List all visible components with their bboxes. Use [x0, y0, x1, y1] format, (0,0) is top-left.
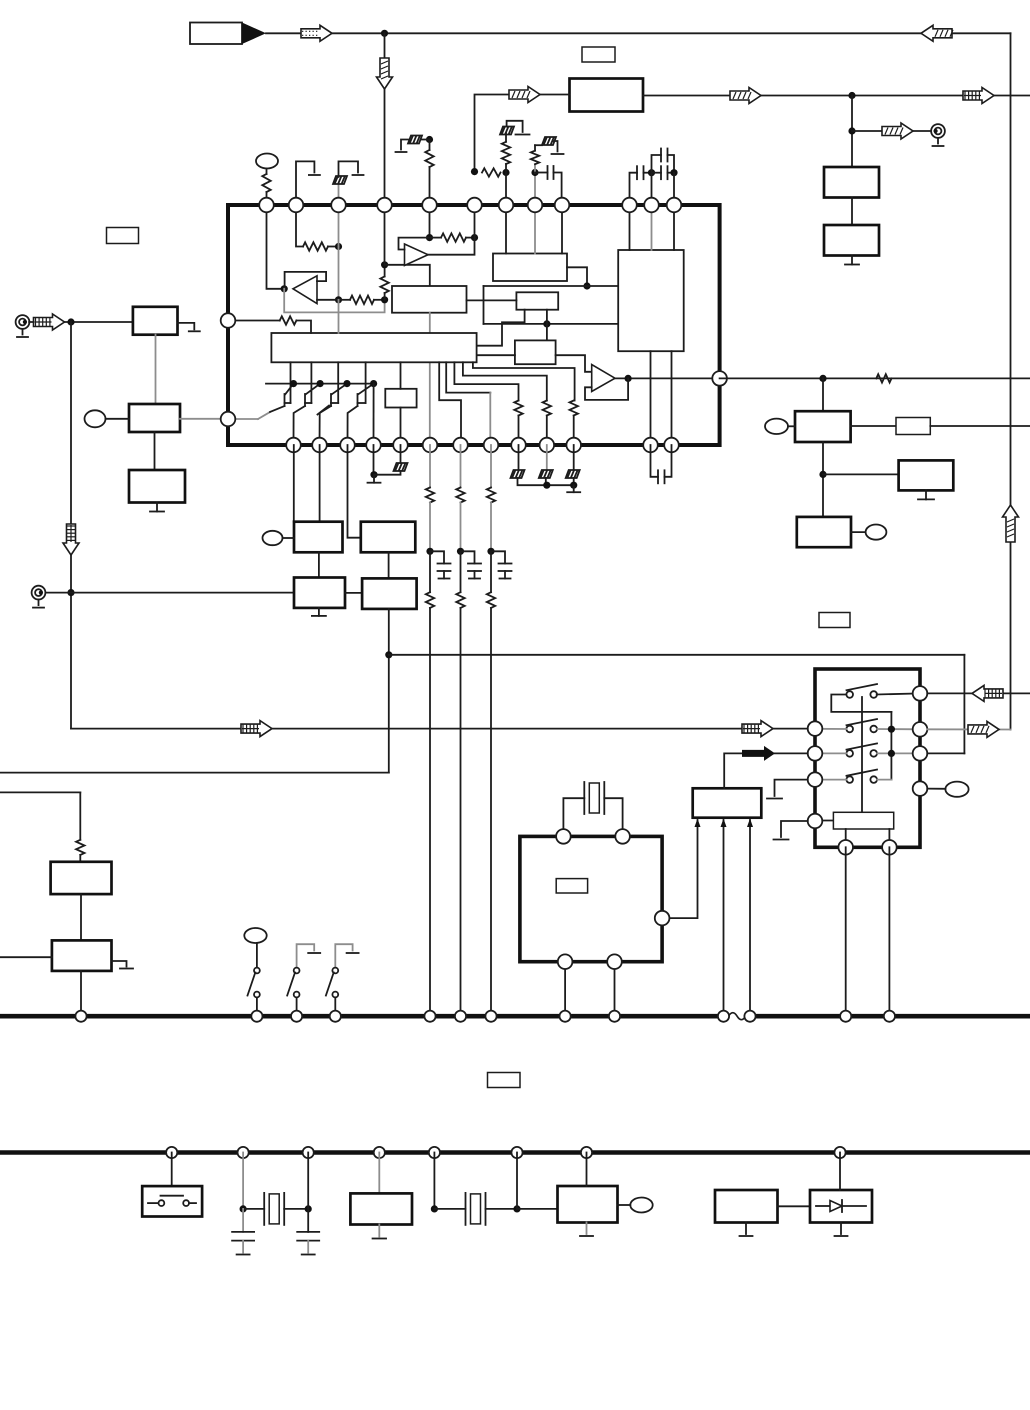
wire pin12 riser — [673, 173, 675, 205]
wire pin3 drop from pin (gray) — [338, 205, 340, 247]
resistor column b6 upper — [426, 488, 434, 503]
block H — [899, 460, 954, 490]
diode D1 — [816, 1205, 830, 1207]
wire line2 drop — [79, 792, 81, 839]
block D — [361, 522, 416, 553]
arrow solid right to block — [742, 746, 775, 761]
ground below B2 — [156, 503, 158, 512]
arrow grid right from jack1 — [34, 314, 65, 330]
wire row1 pole U — [831, 695, 891, 712]
wire op-amp B feedback hook — [399, 238, 430, 250]
pin MCU top 2 — [615, 829, 630, 844]
wire pin2 internal drop — [296, 205, 303, 247]
wire pin3 internal drop (gray) — [338, 247, 340, 300]
wire pin1 internal drop — [267, 205, 285, 289]
capacitor pin8 to pin9 — [535, 172, 548, 174]
wire jack1 to input box — [29, 321, 133, 323]
pin bottom 10 — [540, 438, 555, 453]
supply box L — [715, 1190, 778, 1223]
ellipse label above pin1 — [256, 154, 278, 169]
wire pin b7 column (gray) — [460, 445, 462, 488]
node bus1 junction 8 — [560, 1011, 571, 1022]
wire row4 left (gray) — [815, 779, 846, 781]
resistor on output line — [876, 374, 891, 382]
leaf switch contacts — [148, 1202, 158, 1204]
wire G down — [822, 442, 824, 517]
pin top 9 — [555, 198, 570, 213]
node bus2 junction 6 — [511, 1147, 522, 1158]
resistor column b8 upper — [487, 488, 495, 503]
wire pin3 riser (gray) — [338, 184, 340, 205]
wire top rail right drop — [1010, 33, 1012, 729]
node bus1 junction 5 — [424, 1011, 435, 1022]
block register long box — [271, 333, 476, 362]
pin bottom 12 — [643, 438, 658, 453]
node Q1 collector — [290, 380, 297, 387]
wire box B1 left leg to long box — [477, 310, 525, 346]
capacitor column b6 — [430, 551, 444, 563]
node bus1 junction 7 — [485, 1011, 496, 1022]
wire selector stem — [861, 697, 863, 812]
capacitor lower pin11 to pin12 — [652, 172, 662, 174]
wire long box tab to box B2 — [477, 354, 515, 356]
node row3 link — [888, 750, 895, 757]
pin bottom 5 — [393, 438, 408, 453]
pin bottom 8 — [484, 438, 499, 453]
resistor on pin4 net — [380, 277, 388, 294]
wire column b7 mid (gray) — [460, 503, 462, 552]
resistor above pin b9 — [514, 401, 522, 416]
capacitor column b8 — [491, 551, 505, 563]
wire long box to bias box — [400, 362, 402, 389]
wire bus2 to reset box (gray) — [378, 1153, 380, 1194]
wire column b7 to bus — [460, 608, 462, 1016]
pin block left 1 — [808, 721, 823, 736]
wire column b8 mid (gray) — [490, 503, 492, 552]
pin top 3 — [331, 198, 346, 213]
diode box M — [810, 1190, 872, 1223]
node bus1 junction 13 — [884, 1011, 895, 1022]
ground block left pin3 — [775, 780, 808, 796]
wire pin b1 to block F1 — [293, 445, 295, 522]
wire op-amp C output — [615, 377, 720, 379]
ground below clock box — [586, 1223, 588, 1235]
label thin box — [896, 418, 930, 435]
resistor above pin1 — [266, 169, 268, 175]
pin top 8 — [528, 198, 543, 213]
ground below box L — [745, 1223, 747, 1235]
wire pin10 into block — [629, 205, 631, 250]
arrow grid down on left riser — [63, 524, 79, 555]
switch SW3 — [335, 944, 352, 967]
arrow grid right at page edge — [963, 88, 994, 104]
ground below box M — [840, 1223, 842, 1235]
node osc right — [513, 1205, 520, 1212]
pin bottom 1 — [286, 438, 301, 453]
switch S3 row3 — [846, 750, 853, 757]
wire pin8 riser (gray) — [534, 173, 536, 206]
transistor Q1 — [290, 362, 292, 403]
capacitor pin10 to pin11 — [630, 173, 638, 205]
wire bus2 to leaf switch box — [171, 1153, 173, 1187]
node Q3 collector — [343, 380, 350, 387]
op-amp C (right-pointing) — [592, 365, 615, 392]
ground bracket right of pin8 — [553, 141, 558, 152]
capacitor upper pin11 to pin12 — [652, 155, 662, 173]
input box A1 — [133, 307, 178, 335]
wire switch riser — [963, 655, 965, 754]
switch block outline — [815, 669, 920, 847]
switch S2 row2 — [846, 726, 853, 733]
reset box — [350, 1193, 412, 1224]
wire J to K — [80, 894, 82, 940]
arrow hatched up on right drop — [1003, 505, 1019, 542]
wire crystal right — [604, 798, 622, 836]
wire bias box to pin b5 — [400, 408, 402, 446]
node column b8 — [487, 548, 494, 555]
arrow grid right tape line 2 — [742, 721, 773, 737]
pin bottom 6 — [423, 438, 438, 453]
wire crystal left — [563, 798, 584, 836]
wire Q4 emitter to pin b3 — [348, 406, 358, 445]
node pin11 cap junction — [648, 169, 655, 176]
wire bus2 to osc node — [433, 1153, 435, 1209]
wire tape line to block — [71, 728, 808, 730]
switch SW1 — [256, 943, 258, 968]
pin block right 3 — [913, 746, 928, 761]
wire driver input 1 from MCU — [662, 820, 697, 918]
wire fan drop 5 to resistor b11 — [473, 362, 575, 400]
ground bracket above pin7 — [507, 121, 523, 132]
wire box B2 to op-amp C input — [556, 355, 592, 372]
wire row2 left (gray) — [815, 728, 846, 730]
ellipse label above SW1 — [244, 928, 266, 943]
wire pin6 internal drop — [474, 205, 476, 238]
wire MCU bottom pin2 to bus — [614, 962, 616, 1017]
arrow hatched left on top rail — [921, 25, 952, 41]
wire input box down to B1 block (gray) — [155, 335, 157, 404]
wire op-amp A inverting input — [317, 299, 339, 301]
resistor column b8 lower — [490, 551, 492, 592]
arrow grid left on pin1 wire — [972, 685, 1003, 701]
pin MCU bottom 1 — [558, 954, 573, 969]
wire op-amp A output return (gray) — [284, 289, 384, 313]
resistor above pin b10 — [543, 401, 551, 416]
wire pin7 riser — [505, 164, 507, 205]
node mode line junction — [385, 651, 392, 658]
block box B1 — [516, 292, 558, 309]
node column b6 — [426, 548, 433, 555]
wire bus2 to osc right — [516, 1153, 518, 1209]
wire pin4 net to box C — [385, 265, 430, 286]
node bus1 junction 10 — [718, 1011, 729, 1022]
wire fan drop 1 to pin b7 — [439, 362, 461, 445]
wire Q1 emitter to left pin (gray) — [228, 418, 258, 420]
pin block right 1 — [913, 686, 928, 701]
wire G to thin box — [851, 425, 896, 427]
pin top 10 — [622, 198, 637, 213]
node bus2 junction 5 — [429, 1147, 440, 1158]
ground bracket left of pin5 — [401, 140, 408, 150]
resistor feedback net — [350, 296, 374, 304]
wire B1 to B2 — [154, 432, 156, 470]
pin block bottom 2 — [882, 840, 897, 855]
node column b7 — [457, 548, 464, 555]
wire pin8 into box A (gray) — [534, 205, 536, 254]
ground right of K — [112, 961, 127, 967]
wire pin4 internal drop — [384, 205, 386, 265]
wire to box G — [822, 378, 824, 411]
resistor above box J — [76, 840, 84, 855]
wire D to E — [388, 552, 390, 578]
clock box — [558, 1186, 618, 1223]
wire fan drop 2 to pin b8 (gray tail) — [446, 362, 490, 392]
wire drive to block pin2 — [724, 753, 808, 788]
node bus1 junction 9 — [609, 1011, 620, 1022]
wire fan drop 4 to resistor b10 — [463, 362, 547, 400]
resistor above pin b11 — [570, 401, 578, 416]
node pin4 net lower — [381, 296, 388, 303]
wire branch to jack — [852, 130, 932, 132]
transistor Q3 — [337, 362, 339, 403]
block R2 box — [824, 225, 879, 256]
node bus2 junction 2 — [238, 1147, 249, 1158]
pin block left 3 — [808, 772, 823, 787]
pin block right 4 — [913, 781, 928, 796]
resistor above pin7 — [502, 142, 510, 164]
node crystal2 right — [305, 1205, 312, 1212]
wire B1 to IC left pin (gray) — [180, 418, 221, 420]
node op-amp A output — [281, 285, 288, 292]
wire bus2 to crystal2 node (gray) — [242, 1153, 244, 1209]
connector jack J3 — [931, 124, 945, 138]
crystal X2 — [243, 1208, 264, 1210]
pin top 12 — [667, 198, 682, 213]
block E — [362, 578, 417, 609]
ground pair pins b4 b5 — [373, 445, 375, 475]
chassis ground right of pin8 — [534, 145, 536, 151]
block small box bias — [385, 389, 416, 408]
wire K exit left — [0, 956, 52, 958]
node mix line — [583, 282, 590, 289]
wire filter output — [643, 95, 1030, 97]
wire bus2 into diode box — [839, 1153, 841, 1191]
node output line — [819, 375, 826, 382]
wire L to diode box — [778, 1205, 811, 1207]
pin MCU bottom 2 — [607, 954, 622, 969]
wire pin b8 column (gray) — [490, 445, 492, 488]
wire pin5 internal drop — [429, 205, 431, 238]
wire row2 right (gray) — [877, 728, 920, 730]
block box A — [493, 254, 567, 282]
wire driver input 2 from bus — [723, 820, 725, 1016]
wire row4 right (gray) — [877, 779, 891, 781]
block J — [51, 862, 112, 894]
ellipse label left of G — [765, 419, 788, 434]
wire pin7 into box A — [505, 205, 507, 254]
wire line2 exit left — [0, 791, 80, 793]
pin top 6 — [467, 198, 482, 213]
block I — [797, 517, 851, 547]
leaf switch box — [142, 1186, 202, 1216]
wire bus2 into clock box — [586, 1153, 588, 1187]
node G branch — [819, 471, 826, 478]
crystal X1 — [583, 782, 585, 814]
pin MCU top 1 — [556, 829, 571, 844]
node bus2 junction 8 — [834, 1147, 845, 1158]
pin bottom 3 — [340, 438, 355, 453]
wire Q3 emitter to pin b2 — [320, 406, 332, 445]
arrow grid right tape line 1 — [241, 721, 272, 737]
label box between buses — [488, 1073, 521, 1088]
pin top 4 — [377, 198, 392, 213]
ellipse label right of clock box — [630, 1198, 652, 1213]
wire pin b3 to block D — [348, 445, 361, 538]
block box B2 — [515, 340, 556, 364]
pin left upper — [221, 313, 236, 328]
pin top 11 — [644, 198, 659, 213]
node Q4 collector — [370, 380, 377, 387]
wire between blocks — [851, 198, 853, 226]
resistor above pin5 — [429, 167, 431, 205]
ground bracket above pin2 — [296, 161, 314, 205]
pin bottom 13 — [664, 438, 679, 453]
wire jack2 to F2 — [45, 592, 294, 594]
pin bottom 2 — [312, 438, 327, 453]
wire osc to clock box — [517, 1208, 558, 1210]
pin bottom 9 — [511, 438, 526, 453]
block box C — [392, 286, 467, 313]
node op-amp C output — [625, 375, 632, 382]
node pin12 cap junction — [670, 169, 677, 176]
switch S4 row4 — [846, 776, 853, 783]
op-amp A (left-pointing) — [293, 276, 317, 304]
label box in MCU — [556, 879, 587, 893]
wire row3 right (gray) — [877, 752, 920, 754]
wire output drop — [851, 96, 853, 168]
pin top 7 — [499, 198, 514, 213]
wire driver input 3 from bus — [749, 820, 751, 1016]
wire F1 to F2 — [318, 552, 320, 577]
wire column b6 mid (gray) — [429, 503, 431, 552]
pin bottom 11 — [566, 438, 581, 453]
chassis ground pin b11 — [573, 445, 575, 470]
ground at input box output — [178, 323, 195, 329]
node ground tie 2 — [570, 482, 577, 489]
pin top 2 — [289, 198, 304, 213]
wire coil to bottom pins — [845, 829, 847, 847]
filter block — [570, 79, 644, 112]
node left riser at jack2 — [67, 589, 74, 596]
capacitor crystal2 right — [307, 1209, 309, 1232]
wire left riser x71 — [70, 322, 72, 729]
ellipse label left of B1 — [85, 410, 106, 427]
wire pin6 riser to filter — [475, 95, 570, 172]
wire ellipse to B1 — [106, 418, 130, 420]
arrow hatched down on pin4 riser — [377, 58, 393, 89]
wire block right pin1 to edge — [927, 692, 1030, 694]
node bus2 junction 7 — [581, 1147, 592, 1158]
wire column b6 to bus — [429, 608, 431, 1016]
node bus1 junction 4 — [330, 1011, 341, 1022]
wire op-amp B output — [428, 238, 475, 255]
wire MCU bottom pin1 to bus — [564, 962, 566, 1017]
block B1 — [129, 404, 180, 432]
resistor pin2 to pin3 net — [303, 242, 328, 250]
pin block right 2 — [913, 722, 928, 737]
resistor above pin8 — [531, 151, 539, 165]
wire pin11 riser — [651, 173, 653, 205]
wire box C to box B1 — [467, 299, 517, 301]
switch SW2 — [297, 944, 315, 967]
block right big block — [618, 250, 684, 351]
pin block left 4 — [808, 814, 823, 829]
node osc left — [431, 1205, 438, 1212]
wire mix line drop — [483, 286, 485, 324]
pin block bottom 1 — [838, 840, 853, 855]
resistor column b6 lower — [429, 551, 431, 592]
node ground tie 1 — [543, 482, 550, 489]
block F1 — [294, 522, 343, 553]
wire pin b2 to block F1 — [319, 445, 321, 522]
wire pin9 into box A — [561, 205, 563, 254]
node crystal2 left — [240, 1205, 247, 1212]
wire thin box to edge — [930, 425, 1030, 427]
node row2 link — [888, 726, 895, 733]
wire fan drop 3 to resistor b9 — [454, 362, 518, 400]
wire column b8 to bus — [490, 608, 492, 1016]
pin top 1 — [259, 198, 274, 213]
node pin4 net upper — [381, 261, 388, 268]
connector jack J2 — [32, 586, 46, 600]
chassis ground pin b9 — [518, 445, 520, 470]
node above pin5 — [426, 136, 433, 143]
node top-rail junction — [381, 30, 388, 37]
pin MCU right — [655, 911, 670, 926]
wire pin12 into block — [673, 205, 675, 250]
pin bottom 7 — [453, 438, 468, 453]
ground below H — [925, 490, 927, 499]
wire top rail — [266, 32, 1011, 34]
node jack1 branch — [67, 318, 74, 325]
transistor Q4 — [365, 362, 367, 403]
label box top-left — [107, 228, 139, 244]
resistor op-amp B feedback — [441, 233, 466, 241]
wire block bottom pins to bus — [845, 847, 847, 1016]
wire branch to box H — [823, 473, 899, 475]
wire block to pin b13 — [671, 351, 673, 445]
resistor column b7 lower — [460, 551, 462, 592]
wire Q3 emitter slash — [318, 406, 330, 415]
ground bracket above pin3 — [339, 161, 359, 177]
node bus1 junction 11 — [744, 1011, 755, 1022]
wire pin3 net into long box (gray) — [338, 300, 340, 333]
node bus1 junction 1 — [75, 1011, 86, 1022]
node pin8 riser — [531, 169, 538, 176]
coil label box — [833, 812, 893, 829]
wire left pin to long box — [228, 320, 280, 322]
arrow hatched right on pin2 wire — [968, 721, 999, 737]
ground below reset box — [378, 1225, 380, 1237]
wire mode line exit left — [0, 772, 389, 774]
connector jack J1 — [16, 315, 30, 329]
chassis ground pin b10 (gray riser) — [546, 445, 548, 470]
arrow hatched right to jack — [882, 123, 913, 139]
node bus1 junction 12 — [840, 1011, 851, 1022]
capacitor column b7 — [461, 551, 475, 563]
chassis ground above pin7 — [505, 134, 507, 142]
transistor Q2 — [310, 362, 312, 403]
